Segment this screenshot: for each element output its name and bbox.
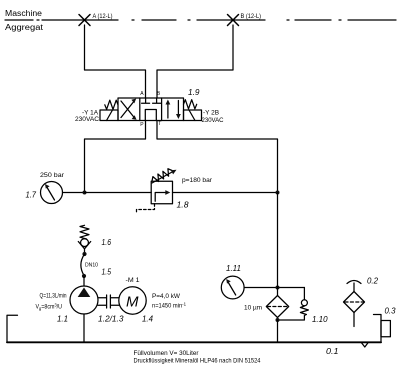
footer notes (134, 351, 262, 365)
svg-text:1.4: 1.4 (142, 314, 153, 324)
svg-text:T: T (158, 121, 161, 127)
svg-text:1.11: 1.11 (226, 263, 241, 273)
svg-text:-M 1: -M 1 (126, 278, 141, 284)
svg-text:-Y 2B: -Y 2B (203, 111, 219, 117)
valve 1.9 body (118, 98, 184, 121)
svg-text:230VAC: 230VAC (202, 118, 225, 124)
svg-text:1.6: 1.6 (102, 237, 112, 247)
node A (12-L) connection cross (79, 15, 90, 26)
filter 1.10 diamond (266, 296, 288, 318)
svg-text:1.9: 1.9 (188, 87, 200, 97)
wire gauge 1.11 to return column and bypass (244, 287, 304, 289)
svg-text:0.2: 0.2 (367, 276, 378, 286)
svg-text:P=4,0 kW: P=4,0 kW (152, 294, 180, 300)
tank right end with filler 0.3 (374, 315, 391, 343)
svg-text:1.8: 1.8 (177, 200, 189, 210)
coupling 1.2/1.3 (98, 295, 119, 308)
solenoid Y2B (right) (184, 110, 202, 121)
svg-text:Druckflüssigkeit Mineralöl HLP: Druckflüssigkeit Mineralöl HLP46 nach DI… (134, 359, 262, 365)
svg-text:Füllvolumen V= 30Liter: Füllvolumen V= 30Liter (134, 351, 199, 357)
wire T line from valve to return column (157, 121, 278, 193)
wire pump suction to tank (83, 314, 85, 342)
svg-text:M: M (126, 294, 139, 311)
relief valve pilot drain (dashed) (137, 204, 155, 214)
gauge 1.11 (221, 276, 244, 299)
wire filter to tank line (277, 320, 279, 342)
svg-text:Q=11,3L/min: Q=11,3L/min (40, 294, 67, 300)
header labels (5, 9, 261, 32)
svg-text:p=180 bar: p=180 bar (182, 178, 212, 184)
svg-text:0.1: 0.1 (326, 346, 339, 356)
valve middle position: blocked A,B and P-T bypass (142, 98, 161, 121)
svg-text:250 bar: 250 bar (40, 173, 64, 179)
svg-text:B (12-L): B (12-L) (241, 14, 262, 20)
wire hose to pump (83, 276, 85, 286)
spring right (184, 100, 197, 109)
svg-text:n=1450 min-1: n=1450 min-1 (152, 302, 186, 310)
wire net A: cross to valve port A (85, 25, 146, 98)
node B (12-L) connection cross (228, 15, 239, 26)
svg-text:0.3: 0.3 (385, 306, 396, 316)
return-into-tank arrow notch (362, 343, 369, 347)
boundary dash-dot line (5, 19, 396, 21)
wire P line from valve to pump column (85, 121, 146, 193)
wire relief to return column (173, 192, 278, 194)
spring left (105, 100, 118, 109)
valve port letters (140, 91, 161, 128)
solenoid Y1A (left) (100, 110, 118, 121)
motor 1.4 (119, 287, 146, 314)
breather 0.2 (344, 281, 365, 327)
svg-text:Maschine: Maschine (5, 9, 43, 18)
svg-text:A (12-L): A (12-L) (93, 14, 113, 20)
valve left position crossed arrows (121, 99, 137, 120)
tank left end lip (7, 315, 18, 342)
svg-text:10 µm: 10 µm (244, 306, 262, 312)
bypass check valve of 1.10 (278, 288, 309, 321)
svg-text:-Y 1A: -Y 1A (82, 111, 98, 117)
svg-text:1.10: 1.10 (312, 314, 328, 324)
svg-text:230VAC: 230VAC (75, 117, 100, 123)
svg-text:1.2/1.3: 1.2/1.3 (98, 314, 124, 324)
wire P column to relief valve (85, 192, 152, 194)
junction dot filter bottom (276, 318, 280, 322)
junction dot return/gauge (276, 286, 280, 290)
svg-text:1.1: 1.1 (57, 314, 68, 324)
svg-text:1.5: 1.5 (102, 267, 112, 277)
svg-text:DN10: DN10 (85, 263, 98, 269)
svg-text:Aggregat: Aggregat (5, 23, 44, 32)
spring-check 1.6 (78, 225, 90, 253)
hose 1.5 with junction dots (81, 252, 87, 278)
relief valve 1.8 (151, 181, 172, 204)
valve labels (75, 87, 224, 124)
svg-text:1.7: 1.7 (26, 190, 37, 200)
wire return column through filter (277, 193, 279, 321)
wire net B: cross to valve port B (157, 25, 233, 98)
gauge 1.7 (41, 182, 63, 204)
valve right position parallel arrows (166, 100, 181, 120)
wire gauge to P column (63, 192, 85, 194)
junction dot relief/return (276, 191, 280, 195)
tank line 0.1 (7, 341, 381, 343)
pump 1.1 (70, 286, 98, 314)
relief valve adjustable spring with arrow (152, 169, 177, 183)
junction dot P/gauge/relief (83, 191, 87, 195)
